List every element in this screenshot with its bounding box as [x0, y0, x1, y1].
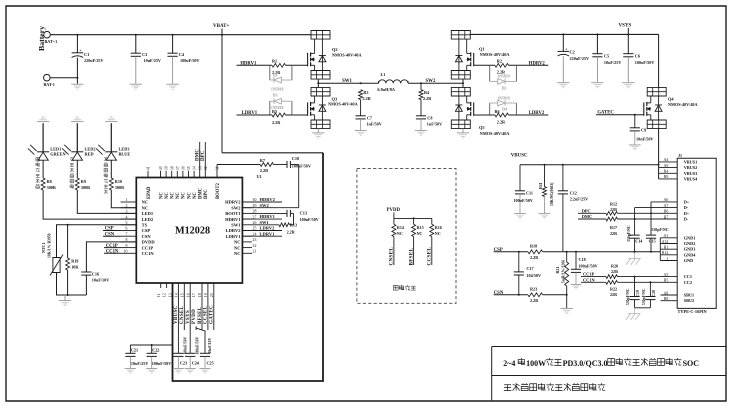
- svg-text:NC: NC: [142, 200, 149, 205]
- svg-text:C22: C22: [152, 348, 159, 353]
- node VBAT+: [213, 24, 230, 35]
- svg-text:R22: R22: [610, 286, 617, 291]
- svg-text:11: 11: [157, 293, 161, 297]
- thermistor NTC1: [41, 233, 63, 275]
- capacitor C21: [125, 345, 148, 368]
- J1 SBU pin stubs: [661, 295, 678, 301]
- diode D2 1N5819 parallel loop: [490, 65, 517, 90]
- resistor R12 22R: [606, 202, 618, 216]
- U1 right pin numbers 30-21: [253, 198, 257, 253]
- svg-text:2.2R: 2.2R: [363, 96, 372, 101]
- U1 left pin numbers 1-10: [124, 198, 128, 253]
- svg-text:330pF/NC: 330pF/NC: [627, 225, 631, 242]
- svg-text:10uF/25V: 10uF/25V: [144, 58, 161, 63]
- wire CSP rail: [494, 251, 661, 253]
- capacitor C20 330pF/NC: [642, 282, 656, 308]
- svg-text:CNSEL: CNSEL: [180, 305, 185, 324]
- svg-text:C11: C11: [526, 191, 533, 196]
- svg-text:C1: C1: [84, 52, 89, 57]
- capacitor C12: [558, 165, 588, 252]
- svg-text:GND1: GND1: [684, 235, 696, 240]
- svg-text:33: 33: [198, 166, 202, 170]
- svg-text:31: 31: [216, 166, 220, 170]
- svg-text:NC: NC: [176, 192, 181, 199]
- svg-text:LED2: LED2: [142, 217, 154, 222]
- svg-text:1N5819: 1N5819: [497, 96, 510, 100]
- svg-text:D-: D-: [684, 217, 689, 222]
- svg-text:BFSEL: BFSEL: [198, 306, 203, 324]
- svg-text:Q5: Q5: [479, 125, 485, 130]
- net label CCSEL stub: [427, 237, 433, 266]
- svg-text:10uF/25V: 10uF/25V: [604, 60, 621, 65]
- svg-text:B8: B8: [664, 297, 669, 301]
- capacitor C13: [287, 210, 319, 222]
- svg-text:100nF/50V: 100nF/50V: [184, 337, 188, 355]
- svg-text:C2: C2: [570, 50, 575, 55]
- svg-text:+: +: [79, 48, 82, 53]
- svg-text:SOC: SOC: [683, 359, 700, 368]
- svg-text:HDRV1: HDRV1: [225, 217, 241, 222]
- wire node SW1: [318, 79, 378, 84]
- inductor L1 6.8uH/8A: [377, 72, 408, 92]
- svg-text:16: 16: [186, 293, 190, 297]
- net label CSP at U1 pin6: [103, 227, 121, 232]
- J1 CC1/CC2 labels: [684, 274, 692, 285]
- svg-text:NC: NC: [187, 192, 192, 199]
- power symbol above LED1: [37, 117, 49, 122]
- node PVDD: [387, 208, 401, 218]
- svg-text:NC: NC: [234, 251, 241, 256]
- svg-text:C12: C12: [570, 190, 577, 195]
- svg-text:A9: A9: [664, 164, 669, 168]
- svg-text:R3: R3: [363, 90, 368, 95]
- wire LED2 to U1 pin3: [77, 190, 136, 213]
- svg-text:36: 36: [182, 166, 186, 170]
- svg-text:GND: GND: [684, 258, 694, 263]
- capacitor C1: [72, 35, 104, 84]
- part designator U1: [257, 174, 262, 179]
- svg-text:100nF/50V: 100nF/50V: [579, 263, 598, 268]
- svg-text:32: 32: [204, 166, 208, 170]
- LED LED2 RED: [62, 145, 95, 160]
- capacitor C7: [356, 100, 382, 131]
- svg-text:VBUSC: VBUSC: [511, 154, 528, 159]
- svg-text:1: 1: [666, 257, 668, 261]
- svg-text:R2: R2: [497, 58, 502, 63]
- resistor R1: [272, 59, 286, 76]
- svg-text:6: 6: [126, 227, 128, 231]
- ground under C8: [415, 131, 427, 136]
- svg-text:10K/1% B3950: 10K/1% B3950: [48, 233, 52, 258]
- svg-text:SW1: SW1: [231, 223, 241, 228]
- svg-text:5: 5: [126, 221, 128, 225]
- svg-text:10uF/25V: 10uF/25V: [131, 361, 148, 366]
- svg-text:J1: J1: [678, 153, 682, 158]
- svg-text:C16: C16: [92, 272, 100, 277]
- svg-text:CSN: CSN: [142, 234, 152, 239]
- label reserved-resistors (chinese): [393, 285, 415, 290]
- svg-text:2.2R: 2.2R: [530, 255, 539, 260]
- svg-text:22: 22: [253, 244, 257, 248]
- svg-text:4: 4: [126, 215, 128, 219]
- svg-text:37: 37: [176, 166, 180, 170]
- svg-text:D3: D3: [273, 94, 278, 98]
- ground under C1: [71, 84, 83, 89]
- svg-text:100uF/50V: 100uF/50V: [635, 60, 655, 65]
- net label LDRV2 at U1 pin25: [242, 226, 282, 231]
- net label CSN at U1 pin7: [103, 232, 121, 237]
- svg-text:U1: U1: [257, 174, 262, 179]
- svg-text:L1: L1: [381, 72, 386, 77]
- net label BFSEL stub: [408, 237, 414, 266]
- svg-text:CC1P: CC1P: [142, 245, 154, 250]
- svg-text:+: +: [565, 46, 568, 51]
- J1 GND pin stubs: [660, 238, 677, 261]
- svg-text:10K/NC(0603): 10K/NC(0603): [550, 182, 554, 206]
- svg-text:R6: R6: [495, 109, 500, 114]
- svg-text:NC: NC: [171, 192, 176, 199]
- connector BAT+1: [44, 31, 58, 43]
- svg-text:3: 3: [126, 210, 128, 214]
- diode D3 1N5819 parallel loop: [270, 94, 292, 115]
- svg-text:NC: NC: [417, 231, 423, 236]
- diode D4 1N5819 parallel loop: [490, 96, 517, 115]
- svg-text:VSYS: VSYS: [186, 310, 191, 324]
- svg-text:R4: R4: [424, 90, 430, 95]
- svg-text:C4: C4: [179, 52, 185, 57]
- capacitor C25: [196, 327, 214, 369]
- capacitor C9: [630, 115, 654, 145]
- resistor R5: [272, 109, 286, 125]
- svg-text:SW2: SW2: [231, 205, 241, 210]
- capacitor C17: [514, 252, 541, 295]
- net label SW1 at U1 pin26: [260, 220, 270, 225]
- svg-text:10nF/10V: 10nF/10V: [208, 337, 212, 353]
- junction dots on VBAT+ rail: [76, 34, 223, 36]
- svg-text:C5: C5: [604, 53, 609, 58]
- svg-text:2.2uF/25V: 2.2uF/25V: [570, 196, 589, 201]
- svg-text:NC: NC: [234, 240, 241, 245]
- svg-text:22R: 22R: [610, 292, 617, 297]
- svg-text:DMC: DMC: [582, 214, 593, 219]
- svg-text:C20: C20: [652, 290, 656, 297]
- J1 GND1-4/GND labels: [684, 235, 697, 263]
- ground under C18: [571, 285, 582, 289]
- svg-text:TYPE-C-16PIN: TYPE-C-16PIN: [678, 309, 708, 314]
- wire LED2 anode: [76, 123, 78, 152]
- ground under C9: [629, 145, 641, 150]
- wire LED3 anode: [110, 123, 112, 152]
- svg-text:20: 20: [210, 293, 214, 297]
- svg-text:12: 12: [163, 293, 167, 297]
- transistor Q2 NMOS-40V/40A: [308, 31, 362, 80]
- svg-text:C6: C6: [635, 53, 641, 58]
- svg-text:Q2: Q2: [332, 47, 338, 52]
- svg-text:CC1N: CC1N: [583, 277, 596, 282]
- svg-text:SW2: SW2: [260, 203, 270, 208]
- ground under C2: [557, 83, 569, 88]
- svg-text:LED1: LED1: [142, 211, 154, 216]
- capacitor C11: [513, 165, 533, 213]
- svg-text:C10: C10: [292, 156, 299, 161]
- svg-text:18: 18: [198, 293, 202, 297]
- connector label TYPE-C-16PIN: [678, 309, 708, 314]
- svg-text:B4: B4: [664, 170, 669, 174]
- svg-text:GND4: GND4: [684, 252, 697, 257]
- resistor R11 10K/NC(0603): [538, 165, 554, 213]
- svg-text:R1: R1: [272, 59, 277, 64]
- resistor R14 NC: [392, 218, 404, 236]
- svg-text:C23: C23: [180, 361, 187, 366]
- LED LED3 BLUE: [96, 145, 130, 160]
- svg-text:VBUS4: VBUS4: [684, 176, 698, 181]
- ground under Q3: [312, 129, 324, 138]
- net label LDRV1: [237, 111, 273, 116]
- U1 right pin stubs 30-21: [242, 202, 252, 253]
- wire R12 to J1 B6: [617, 212, 677, 214]
- wire LED1 to U1 pin4: [43, 190, 136, 219]
- svg-text:CNSEL: CNSEL: [389, 247, 395, 266]
- svg-text:R8: R8: [47, 179, 52, 184]
- svg-text:DPC: DPC: [204, 189, 209, 199]
- svg-text:C9: C9: [641, 128, 646, 133]
- svg-text:13: 13: [169, 293, 173, 297]
- resistor R17 22R: [606, 217, 618, 236]
- svg-text:HDRV2: HDRV2: [529, 61, 546, 66]
- U1 top pin stubs 41-31: [148, 171, 194, 178]
- wire CSN row: [494, 294, 568, 296]
- net label CC1P at U1 pin9: [104, 244, 121, 249]
- wire C21/C22 rail to VBAT column: [130, 344, 172, 346]
- node VSYS: [619, 23, 632, 34]
- svg-text:C7: C7: [367, 116, 372, 121]
- svg-text:GND2: GND2: [684, 241, 696, 246]
- svg-text:LDRV2: LDRV2: [529, 111, 545, 116]
- svg-text:BFSEL: BFSEL: [408, 248, 414, 266]
- svg-text:C17: C17: [526, 266, 533, 271]
- svg-text:DMC: DMC: [195, 149, 200, 161]
- value label for LED3 (chinese note): [104, 157, 108, 194]
- capacitor C18: [571, 252, 598, 284]
- U1 bottom net labels (rotated): [174, 305, 214, 324]
- svg-text:TS: TS: [142, 223, 148, 228]
- svg-text:41: 41: [147, 166, 151, 170]
- wire Q5 gate to R6: [474, 114, 495, 116]
- svg-text:9: 9: [126, 244, 128, 248]
- J1 VBUS1-4 labels: [684, 159, 698, 181]
- wire LED3 to U1 pin2: [111, 190, 136, 208]
- wire NTC bottom rail: [53, 273, 87, 297]
- svg-text:CC2: CC2: [684, 280, 692, 285]
- ground under NTC network: [59, 295, 71, 306]
- svg-text:NC: NC: [159, 192, 164, 199]
- svg-text:1N5819: 1N5819: [271, 87, 284, 91]
- wire J1 GND bus: [659, 238, 661, 261]
- svg-text:R21: R21: [555, 267, 560, 274]
- svg-text:DPC: DPC: [582, 208, 591, 213]
- wire TS pin5 to NTC top: [57, 224, 137, 257]
- resistor R13: [252, 222, 297, 234]
- svg-text:A1: A1: [664, 234, 669, 238]
- capacitor C2: [558, 34, 590, 82]
- wire R17 to J1 B7: [617, 218, 677, 220]
- net DPC stub above U1 pin32: [201, 142, 206, 178]
- J1 VBUS pin stubs A4 A9 B4 B9: [659, 162, 678, 179]
- svg-text:22R: 22R: [610, 207, 617, 212]
- svg-text:2: 2: [126, 204, 128, 208]
- wire LED1 anode: [42, 123, 44, 152]
- svg-text:100nF/50V: 100nF/50V: [195, 337, 199, 355]
- net label CSN: [494, 291, 504, 296]
- net label SW2 at U1 pin29: [260, 203, 270, 208]
- svg-text:SBU1: SBU1: [684, 293, 695, 298]
- svg-text:14: 14: [175, 293, 179, 297]
- resistor R6: [495, 109, 509, 124]
- wire R22 to J1 B5: [617, 281, 677, 283]
- transistor Q1 NMOS-40V/40A (mirrored): [451, 31, 509, 80]
- J1 D pin designators: [664, 198, 669, 219]
- resistor R7: [260, 158, 274, 173]
- svg-text:R5: R5: [272, 109, 277, 114]
- svg-text:RED: RED: [85, 152, 94, 157]
- svg-text:B9: B9: [664, 175, 669, 179]
- resistor R9: [75, 160, 91, 190]
- wire Q1 source to Q5 drain / node SW2: [462, 79, 464, 87]
- ground under C11: [514, 213, 526, 218]
- svg-text:R10: R10: [115, 179, 122, 184]
- svg-text:100nF/50V: 100nF/50V: [513, 198, 533, 203]
- resistor R21 5mR shunt: [555, 252, 569, 308]
- svg-text:BLUE: BLUE: [119, 152, 131, 157]
- net label CNSEL stub: [389, 237, 395, 266]
- wire VSYS to Q4 drain: [658, 34, 660, 87]
- svg-text:35: 35: [187, 166, 191, 170]
- svg-text:SBU2: SBU2: [684, 298, 695, 303]
- svg-text:300R: 300R: [81, 185, 91, 190]
- svg-text:A4: A4: [664, 158, 669, 162]
- svg-text:SW1: SW1: [342, 79, 352, 84]
- net label LDRV2: [509, 111, 549, 116]
- op-amp U1 M12028 body: [136, 178, 242, 284]
- transistor Q5 NMOS-40V/40A (mirrored): [451, 87, 509, 135]
- ground under C23: [173, 369, 184, 374]
- svg-text:38: 38: [170, 166, 174, 170]
- wire PVDD rail: [394, 217, 432, 219]
- svg-text:22R: 22R: [611, 269, 618, 274]
- svg-text:15: 15: [180, 293, 184, 297]
- svg-text:2.2R: 2.2R: [287, 229, 295, 234]
- ground under C25: [199, 369, 210, 374]
- svg-text:NMOS-40V/40A: NMOS-40V/40A: [668, 102, 698, 107]
- svg-text:R13: R13: [290, 222, 297, 227]
- net label LDRV1 at U1 pin24: [242, 231, 282, 236]
- svg-text:2.2R: 2.2R: [260, 168, 269, 173]
- svg-text:PVDD: PVDD: [192, 309, 197, 324]
- svg-text:22R: 22R: [610, 231, 617, 236]
- wire J1 A6 to C15 column: [651, 202, 677, 235]
- svg-text:NC: NC: [165, 192, 170, 199]
- svg-text:R16: R16: [435, 225, 442, 230]
- net label DPC: [578, 208, 606, 213]
- svg-text:SW1: SW1: [260, 220, 270, 225]
- U1 bottom pin stubs 11-20: [161, 283, 214, 330]
- resistor R20 22R: [606, 263, 618, 278]
- svg-text:300R: 300R: [47, 185, 57, 190]
- U1 top pin labels (rotated): [147, 182, 221, 199]
- svg-text:2.2R: 2.2R: [423, 96, 432, 101]
- svg-text:LDRV2: LDRV2: [260, 226, 276, 231]
- svg-text:CSP: CSP: [142, 228, 151, 233]
- svg-text:CC1N: CC1N: [142, 251, 155, 256]
- svg-text:DMC: DMC: [199, 187, 204, 199]
- svg-text:BOOT2: BOOT2: [216, 182, 221, 199]
- svg-text:NMOS-40V/40A: NMOS-40V/40A: [480, 131, 510, 136]
- capacitor C15 330pF/NC: [646, 228, 669, 252]
- svg-text:39: 39: [165, 166, 169, 170]
- svg-text:NC: NC: [435, 231, 441, 236]
- svg-text:2.2R: 2.2R: [530, 298, 539, 303]
- U1 left pin stubs 1-10: [121, 202, 137, 253]
- svg-text:LDRV1: LDRV1: [260, 231, 276, 236]
- svg-text:220uF/25V: 220uF/25V: [84, 58, 104, 63]
- wire VBUSC rail: [520, 164, 659, 166]
- svg-text:6.8uH/8A: 6.8uH/8A: [377, 87, 395, 92]
- power symbol above LED2: [71, 117, 83, 122]
- svg-text:NTC1: NTC1: [41, 243, 46, 253]
- J1 SBU1/SBU2 labels: [684, 293, 695, 304]
- net label CC1N: [581, 277, 606, 282]
- svg-text:C13: C13: [300, 211, 307, 216]
- resistor R3: [359, 90, 372, 101]
- capacitor C16: [81, 242, 136, 295]
- svg-text:NMOS-40V/40A: NMOS-40V/40A: [332, 53, 362, 58]
- resistor R19: [66, 225, 80, 295]
- ground under C5: [591, 83, 603, 88]
- chassis ground below D network: [626, 252, 641, 265]
- svg-text:BOOT1: BOOT1: [225, 211, 241, 216]
- svg-text:VBUS3: VBUS3: [684, 171, 698, 176]
- svg-text:BAT-1: BAT-1: [44, 82, 55, 87]
- U1 top pin numbers 41-31: [147, 166, 220, 170]
- J1 SBU pin designators: [664, 291, 669, 301]
- transistor Q3 NMOS-40V/40A: [308, 87, 358, 128]
- svg-text:NC: NC: [234, 245, 241, 250]
- capacitor C10: [287, 156, 311, 169]
- capacitor C14 330pF/NC: [627, 225, 643, 252]
- svg-text:100nF/50V: 100nF/50V: [300, 217, 319, 222]
- svg-text:HDRV2: HDRV2: [225, 200, 241, 205]
- svg-text:R17: R17: [610, 225, 617, 230]
- svg-text:B12: B12: [662, 251, 669, 255]
- ground under R21: [561, 309, 573, 314]
- svg-text:C19: C19: [636, 290, 640, 297]
- svg-text:NC: NC: [142, 205, 149, 210]
- transistor Q4 NMOS-40V/40A: [644, 87, 698, 128]
- svg-text:NC: NC: [193, 192, 198, 199]
- svg-text:C25: C25: [207, 361, 214, 366]
- svg-text:HDRV2: HDRV2: [260, 197, 276, 202]
- svg-text:C14: C14: [635, 239, 642, 244]
- svg-text:C21: C21: [131, 348, 138, 353]
- svg-text:R12: R12: [610, 202, 617, 207]
- svg-text:D4: D4: [502, 107, 507, 111]
- svg-text:PD3.0/QC3.0: PD3.0/QC3.0: [563, 359, 608, 368]
- svg-text:B1: B1: [664, 246, 669, 250]
- capacitor C4: [168, 35, 200, 84]
- resistor R23: [528, 287, 543, 303]
- net label HDRV2: [509, 61, 549, 66]
- svg-text:19: 19: [204, 293, 208, 297]
